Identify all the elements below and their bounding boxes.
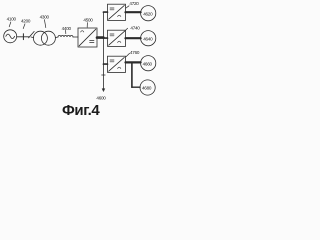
motor M3 (4660) xyxy=(141,56,156,71)
svg-text:4600: 4600 xyxy=(96,95,106,100)
label 4100 xyxy=(7,17,17,22)
transformer T1 (4300) xyxy=(33,31,47,45)
stub bus to inverter B xyxy=(103,37,107,39)
stub bus to inverter C xyxy=(103,63,107,65)
motor label 4680 xyxy=(142,86,152,91)
svg-text:4720: 4720 xyxy=(129,1,139,6)
DC bus 4600 vertical xyxy=(102,12,104,89)
motor M4 (4680) xyxy=(140,80,155,95)
branch to motor 4 xyxy=(131,63,133,87)
label 4300 xyxy=(40,14,50,19)
bus arrowhead xyxy=(102,89,105,92)
label 4400 xyxy=(62,26,72,31)
motor M2 (4640) xyxy=(141,31,156,46)
svg-text:4760: 4760 xyxy=(130,50,140,55)
label 4500 xyxy=(83,18,93,23)
inductor L1 (4400) xyxy=(58,36,73,38)
stub inverter B to motor 2 xyxy=(126,37,141,39)
inverter U3 (4740) xyxy=(108,30,126,46)
wire source to breaker xyxy=(17,36,24,38)
label 4740 xyxy=(130,26,140,31)
stub inverter A to motor 1 xyxy=(126,11,141,13)
svg-text:4100: 4100 xyxy=(7,17,17,22)
svg-text:Фиг.4: Фиг.4 xyxy=(62,102,100,119)
motor label 4620 xyxy=(143,11,153,16)
label 4600 xyxy=(96,95,106,100)
AC source G1 (4100) xyxy=(4,30,17,43)
motor label 4640 xyxy=(143,36,153,41)
label 4760 xyxy=(130,50,140,55)
svg-text:4660: 4660 xyxy=(143,61,153,66)
bus tick xyxy=(102,74,106,76)
svg-text:4680: 4680 xyxy=(142,86,152,91)
inverter U4 (4760) xyxy=(108,56,126,72)
wire inductor to rectifier xyxy=(73,36,78,38)
rectifier U1 (4500) xyxy=(78,28,97,47)
svg-text:4500: 4500 xyxy=(83,18,93,23)
svg-text:4740: 4740 xyxy=(130,26,140,31)
wire transformer to inductor xyxy=(55,36,58,39)
label 4200 xyxy=(21,19,31,24)
wire breaker to transformer xyxy=(31,36,34,39)
stub bus to inverter A xyxy=(103,11,107,13)
DC link bar rectifier to bus xyxy=(97,36,103,39)
svg-text:4400: 4400 xyxy=(62,26,72,31)
label 4720 xyxy=(129,1,139,6)
svg-text:4640: 4640 xyxy=(143,36,153,41)
motor label 4660 xyxy=(143,61,153,66)
breaker Q1 (4200) xyxy=(22,34,24,40)
stub inverter C to motor 3 xyxy=(126,61,141,63)
svg-text:4200: 4200 xyxy=(21,19,31,24)
svg-text:4300: 4300 xyxy=(40,14,50,19)
inverter U2 (4720) xyxy=(108,4,126,20)
motor M1 (4620) xyxy=(141,6,156,21)
svg-text:4620: 4620 xyxy=(143,11,153,16)
